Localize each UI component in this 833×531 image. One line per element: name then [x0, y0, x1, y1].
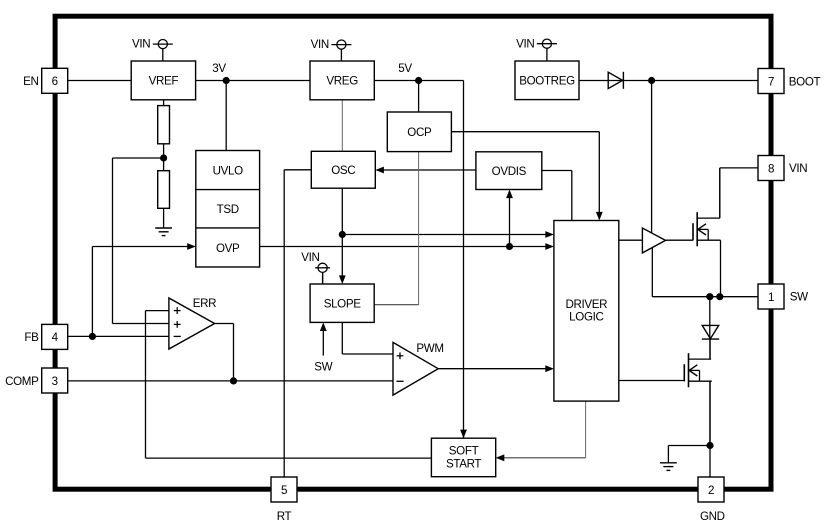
svg-text:RT: RT [277, 510, 292, 523]
svg-text:VIN: VIN [301, 251, 319, 264]
svg-text:SOFT: SOFT [449, 445, 479, 458]
svg-text:BOOTREG: BOOTREG [519, 75, 575, 88]
svg-text:OVDIS: OVDIS [492, 165, 527, 178]
svg-text:COMP: COMP [5, 375, 39, 388]
svg-text:VIN: VIN [132, 38, 150, 51]
svg-text:PWM: PWM [416, 342, 443, 355]
svg-text:FB: FB [24, 331, 39, 344]
svg-text:SW: SW [790, 291, 808, 304]
svg-text:VIN: VIN [311, 38, 329, 51]
svg-text:OVP: OVP [216, 242, 240, 255]
svg-text:BOOT: BOOT [789, 75, 821, 88]
svg-text:7: 7 [768, 75, 774, 88]
svg-text:UVLO: UVLO [213, 164, 244, 177]
svg-text:5: 5 [281, 484, 287, 497]
svg-text:3V: 3V [212, 62, 226, 75]
svg-text:4: 4 [52, 331, 59, 344]
svg-text:ERR: ERR [193, 297, 216, 310]
svg-text:VIN: VIN [789, 162, 807, 175]
svg-text:3: 3 [52, 375, 58, 388]
svg-text:6: 6 [52, 75, 58, 88]
svg-text:DRIVER: DRIVER [565, 298, 607, 311]
svg-text:VREG: VREG [326, 75, 358, 88]
svg-text:LOGIC: LOGIC [569, 310, 603, 323]
svg-text:1: 1 [768, 291, 774, 304]
svg-text:TSD: TSD [217, 203, 239, 216]
svg-text:OCP: OCP [407, 126, 432, 139]
svg-text:START: START [446, 458, 481, 471]
svg-text:5V: 5V [398, 62, 412, 75]
svg-text:OSC: OSC [331, 164, 355, 177]
svg-text:EN: EN [23, 75, 38, 88]
svg-text:SW: SW [314, 361, 332, 374]
svg-text:GND: GND [700, 510, 725, 523]
svg-text:VIN: VIN [516, 37, 534, 50]
svg-text:8: 8 [768, 162, 774, 175]
svg-text:VREF: VREF [149, 75, 179, 88]
svg-text:SLOPE: SLOPE [324, 298, 362, 311]
svg-text:2: 2 [708, 484, 714, 497]
